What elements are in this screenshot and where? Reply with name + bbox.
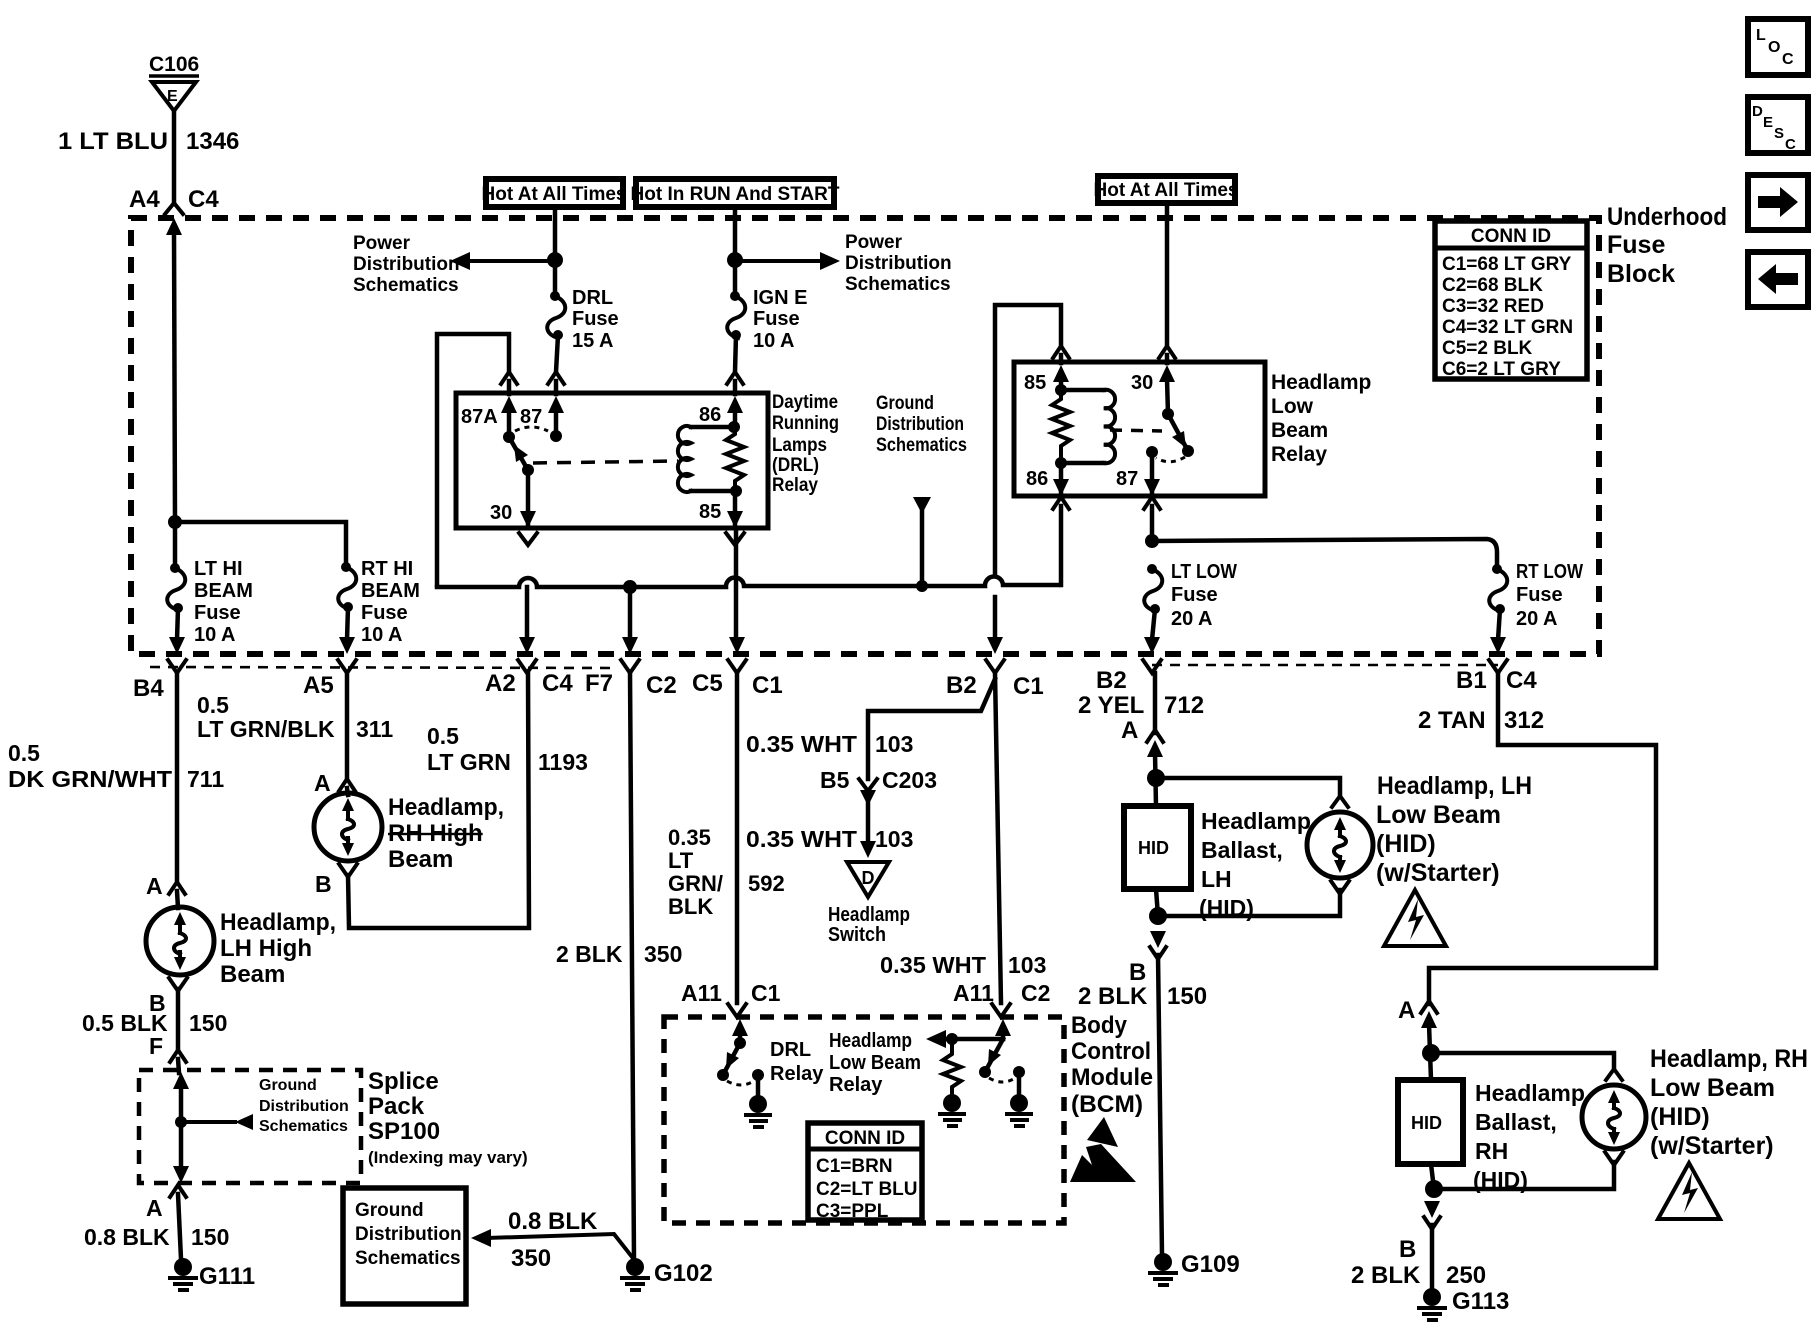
svg-text:A5: A5	[303, 672, 334, 699]
svg-text:Underhood: Underhood	[1607, 203, 1727, 231]
svg-text:Relay: Relay	[772, 475, 818, 496]
svg-text:30: 30	[490, 502, 512, 524]
svg-text:Headlamp: Headlamp	[1271, 371, 1371, 394]
svg-text:Fuse: Fuse	[753, 308, 800, 330]
svg-text:87A: 87A	[461, 406, 498, 428]
svg-text:311: 311	[356, 716, 393, 742]
svg-text:(w/Starter): (w/Starter)	[1376, 859, 1500, 887]
svg-text:C5: C5	[692, 670, 723, 697]
svg-text:Beam: Beam	[220, 961, 285, 988]
wire 2 YEL 712 (B2 to LH ballast)	[1078, 673, 1204, 806]
svg-text:LT HI: LT HI	[194, 558, 243, 580]
svg-text:C2=68 BLK: C2=68 BLK	[1442, 275, 1543, 296]
svg-text:0.5: 0.5	[427, 723, 459, 749]
svg-text:C3=32 RED: C3=32 RED	[1442, 296, 1544, 317]
svg-text:C6=2 LT GRY: C6=2 LT GRY	[1442, 359, 1561, 380]
svg-text:Beam: Beam	[388, 846, 453, 873]
svg-text:2 YEL: 2 YEL	[1078, 692, 1144, 719]
svg-text:150: 150	[189, 1010, 227, 1036]
svg-text:Low Beam: Low Beam	[1376, 801, 1501, 829]
svg-text:Schematics: Schematics	[845, 274, 951, 295]
headlamp RH Low Beam (HID) lamp	[1425, 1045, 1808, 1198]
warning triangle (LH)	[1384, 890, 1446, 946]
svg-text:C1=68 LT GRY: C1=68 LT GRY	[1442, 254, 1572, 275]
svg-text:0.35: 0.35	[668, 825, 711, 850]
fuse LT HI BEAM 10 A	[167, 522, 253, 646]
svg-text:Ground: Ground	[259, 1077, 317, 1094]
svg-text:2 BLK: 2 BLK	[556, 941, 623, 967]
headlamp switch (triangle D)	[828, 862, 910, 946]
svg-text:Relay: Relay	[1271, 443, 1327, 466]
ground distribution schematics (mid, triangle tap)	[876, 393, 967, 592]
wire 0.5 LT GRN 1193 (RH high beam B to A2)	[315, 673, 588, 928]
ground (BCM relay contact)	[1007, 1094, 1031, 1126]
svg-text:G102: G102	[654, 1260, 713, 1287]
svg-text:RT HI: RT HI	[361, 558, 413, 580]
power distribution schematics arrow (right)	[735, 232, 952, 295]
svg-text:Ballast,: Ballast,	[1201, 837, 1283, 863]
svg-text:BEAM: BEAM	[361, 580, 420, 602]
svg-text:592: 592	[748, 871, 785, 896]
svg-text:A11: A11	[681, 980, 722, 1006]
ground (BCM DRL relay contact)	[746, 1095, 770, 1127]
svg-text:350: 350	[644, 941, 682, 967]
svg-text:A11: A11	[953, 980, 994, 1006]
DRL relay coil (86-85) with resistor	[519, 396, 744, 545]
svg-text:150: 150	[1167, 983, 1207, 1010]
svg-text:O: O	[1768, 39, 1780, 56]
svg-text:Distribution: Distribution	[355, 1224, 462, 1245]
conn id table (underhood fuse block)	[1435, 221, 1587, 380]
svg-text:10 A: 10 A	[194, 624, 236, 646]
icon box LOC	[1748, 19, 1808, 75]
svg-text:C4: C4	[188, 186, 219, 213]
svg-text:Schematics: Schematics	[876, 435, 967, 456]
svg-text:Low Beam: Low Beam	[1650, 1074, 1775, 1102]
DRL relay (inside BCM)	[717, 1019, 824, 1097]
svg-text:30: 30	[1131, 372, 1153, 394]
wire 0.5 BLK 150 (LH high beam B to splice)	[82, 978, 227, 1073]
svg-text:87: 87	[520, 406, 542, 428]
headlamp RH High Beam	[314, 793, 504, 873]
svg-text:A: A	[146, 1195, 163, 1221]
svg-text:LH High: LH High	[220, 935, 312, 962]
connector row arrows through fuse block bottom	[169, 528, 1506, 654]
headlamp LH High Beam	[146, 907, 336, 988]
svg-text:10 A: 10 A	[753, 330, 795, 352]
svg-text:Hot In RUN And START: Hot In RUN And START	[631, 184, 840, 205]
svg-text:150: 150	[191, 1224, 229, 1250]
svg-text:20 A: 20 A	[1516, 608, 1558, 630]
svg-text:Ground: Ground	[876, 393, 934, 414]
headlamp LH Low Beam (HID) lamp	[1149, 772, 1532, 925]
svg-text:Low: Low	[1271, 395, 1314, 418]
power distribution schematics arrow (left)	[353, 233, 555, 296]
svg-text:350: 350	[511, 1245, 551, 1272]
svg-text:C4=32 LT GRN: C4=32 LT GRN	[1442, 317, 1573, 338]
ground (BCM relay coil)	[940, 1094, 964, 1126]
wire 0.35 LT GRN/BLK 592 (C5/C1 to BCM A11/C1)	[668, 673, 785, 1017]
svg-text:Distribution: Distribution	[876, 414, 964, 435]
svg-text:B: B	[1129, 959, 1146, 986]
svg-text:711: 711	[187, 766, 224, 792]
svg-text:Hot At All Times: Hot At All Times	[482, 184, 627, 205]
DRL relay terminal 87A	[461, 396, 517, 443]
wire feed to RT HI BEAM fuse	[168, 515, 346, 566]
svg-text:F: F	[149, 1033, 163, 1059]
svg-text:Schematics: Schematics	[353, 275, 459, 296]
svg-text:Distribution: Distribution	[845, 253, 952, 274]
headlamp ballast RH (HID)	[1398, 1080, 1585, 1193]
wire 2 BLK 150 (LH ballast B to G109)	[1078, 931, 1207, 1255]
wire 2 BLK 350 (F7 to G102)	[556, 673, 682, 1260]
warning triangle (RH)	[1658, 1163, 1720, 1219]
svg-text:BEAM: BEAM	[194, 580, 253, 602]
svg-text:Headlamp: Headlamp	[1201, 808, 1311, 834]
icon box arrow right	[1748, 175, 1808, 230]
svg-text:RH High: RH High	[388, 820, 483, 847]
conn id table (BCM)	[808, 1123, 922, 1222]
svg-text:Fuse: Fuse	[194, 602, 241, 624]
svg-text:HID: HID	[1411, 1113, 1442, 1133]
ground distribution schematics box (bottom)	[343, 1188, 636, 1304]
svg-text:DRL: DRL	[572, 287, 613, 309]
svg-text:A4: A4	[129, 186, 160, 213]
relay DRL (Daytime Running Lamps)	[456, 392, 839, 528]
svg-text:LT GRN: LT GRN	[427, 749, 511, 775]
svg-text:C203: C203	[882, 767, 937, 793]
svg-text:Fuse: Fuse	[572, 308, 619, 330]
fuse IGN E 10 A	[727, 287, 807, 394]
svg-text:D: D	[862, 868, 875, 888]
svg-text:C3=PPL: C3=PPL	[816, 1201, 889, 1222]
svg-text:Splice: Splice	[368, 1068, 439, 1095]
svg-text:20 A: 20 A	[1171, 608, 1213, 630]
svg-text:Power: Power	[845, 232, 903, 253]
wire 87A loop (DRL relay 87A to ground bus)	[437, 334, 517, 585]
svg-text:C5=2 BLK: C5=2 BLK	[1442, 338, 1533, 359]
svg-text:SP100: SP100	[368, 1118, 440, 1145]
svg-text:C2: C2	[646, 672, 677, 699]
fuse RT LOW 20 A	[1489, 561, 1583, 640]
svg-text:Relay: Relay	[770, 1063, 824, 1085]
ground G102	[622, 1258, 713, 1290]
svg-text:G109: G109	[1181, 1251, 1240, 1278]
ground G113	[1419, 1288, 1509, 1320]
fuse RT HI BEAM 10 A	[338, 558, 420, 646]
svg-text:A: A	[1398, 997, 1415, 1024]
wire 2 TAN 312 (B1/C4 to RH ballast)	[1398, 673, 1656, 1080]
wire 85 loop (low beam relay 85 to B2/C1)	[995, 305, 1069, 640]
svg-text:D: D	[1752, 103, 1763, 120]
svg-text:85: 85	[1024, 372, 1046, 394]
svg-text:Fuse: Fuse	[1607, 231, 1665, 259]
svg-text:15 A: 15 A	[572, 330, 614, 352]
svg-text:Headlamp, LH: Headlamp, LH	[1377, 772, 1532, 800]
body control module BCM (dashed box)	[664, 1012, 1153, 1223]
svg-text:(HID): (HID)	[1376, 830, 1436, 858]
svg-text:Switch: Switch	[828, 924, 886, 946]
svg-text:2 TAN: 2 TAN	[1418, 707, 1486, 734]
svg-text:(w/Starter): (w/Starter)	[1650, 1132, 1774, 1160]
svg-text:RT LOW: RT LOW	[1516, 561, 1583, 583]
wire from Hot At All Times to DRL fuse	[547, 207, 563, 295]
ESD sensitive symbol	[1070, 1117, 1136, 1182]
wire branch to headlamp switch (0.35 WHT 103)	[746, 679, 995, 779]
svg-text:C2: C2	[1021, 980, 1050, 1006]
svg-text:B4: B4	[133, 675, 164, 702]
svg-text:10 A: 10 A	[361, 624, 403, 646]
ground G111	[170, 1258, 255, 1290]
svg-text:86: 86	[1026, 468, 1048, 490]
wire 0.35 WHT 103 (B2/C1 to BCM A11/C2)	[880, 673, 1050, 1017]
svg-text:103: 103	[1008, 952, 1046, 978]
svg-text:BLK: BLK	[668, 894, 713, 919]
svg-text:Running: Running	[772, 413, 839, 434]
svg-text:Ground: Ground	[355, 1200, 424, 1221]
svg-text:B5: B5	[820, 767, 850, 793]
fuse LT LOW 20 A	[1144, 561, 1237, 640]
wire 0.5 DK GRN/WHT 711 (B4 to LH high beam A)	[8, 673, 224, 908]
svg-text:(Indexing may vary): (Indexing may vary)	[368, 1148, 528, 1167]
svg-text:CONN ID: CONN ID	[1471, 226, 1551, 247]
wire 0.8 BLK 150 (splice to G111)	[84, 1185, 229, 1259]
svg-text:C1=BRN: C1=BRN	[816, 1156, 893, 1177]
svg-text:Headlamp: Headlamp	[829, 1030, 912, 1052]
svg-text:Block: Block	[1607, 260, 1675, 288]
svg-text:L: L	[1756, 27, 1766, 44]
ground G109	[1150, 1251, 1240, 1285]
svg-text:Module: Module	[1071, 1064, 1153, 1091]
svg-text:86: 86	[699, 404, 721, 426]
svg-text:Distribution: Distribution	[353, 254, 460, 275]
svg-text:A: A	[146, 873, 163, 899]
svg-text:0.5: 0.5	[197, 692, 229, 718]
low beam relay switch (30-87)	[1116, 365, 1194, 496]
svg-text:2 BLK: 2 BLK	[1351, 1262, 1421, 1289]
svg-text:Power: Power	[353, 233, 411, 254]
svg-text:B2: B2	[946, 672, 977, 699]
wire low beam relay 86 to ground bus	[1053, 497, 1069, 585]
svg-text:Ballast,: Ballast,	[1475, 1109, 1557, 1135]
svg-text:DK GRN/WHT: DK GRN/WHT	[8, 766, 172, 792]
wire from Hot In RUN And START to IGN E fuse	[727, 207, 743, 295]
headlamp ballast LH (HID)	[1124, 806, 1311, 921]
svg-text:103: 103	[875, 731, 913, 757]
svg-text:250: 250	[1446, 1262, 1486, 1289]
svg-text:2 BLK: 2 BLK	[1078, 983, 1148, 1010]
svg-text:GRN/: GRN/	[668, 871, 723, 896]
svg-text:Schematics: Schematics	[355, 1248, 461, 1269]
label Hot In RUN And START	[631, 179, 840, 207]
svg-text:103: 103	[875, 826, 913, 852]
svg-text:HID: HID	[1138, 838, 1169, 858]
svg-text:C: C	[1782, 51, 1794, 68]
svg-text:E: E	[1763, 114, 1773, 131]
headlamp low beam relay (inside BCM)	[829, 1019, 1025, 1096]
svg-text:RH: RH	[1475, 1138, 1508, 1164]
wire low beam relay 87 to fuses	[1144, 497, 1497, 568]
wire 1 LT BLU 1346 (C106 to fuse block A4/C4)	[58, 110, 239, 522]
svg-text:Hot At All Times: Hot At All Times	[1094, 180, 1239, 201]
svg-text:Daytime: Daytime	[772, 392, 838, 413]
svg-text:Body: Body	[1071, 1012, 1128, 1039]
svg-text:B: B	[315, 871, 332, 897]
svg-text:C2=LT BLU: C2=LT BLU	[816, 1179, 918, 1200]
DRL relay terminal 87	[515, 396, 564, 442]
relay Headlamp Low Beam	[1014, 362, 1371, 496]
icon box arrow left	[1748, 252, 1808, 307]
svg-text:0.35 WHT: 0.35 WHT	[746, 731, 857, 757]
splice pack SP100 (dashed box)	[139, 1068, 528, 1183]
svg-text:A: A	[314, 770, 331, 796]
svg-text:1193: 1193	[538, 749, 588, 775]
svg-text:LT LOW: LT LOW	[1171, 561, 1237, 583]
wire 0.5 LT GRN/BLK 311 (A5 to RH high beam A)	[197, 673, 393, 796]
svg-text:0.35 WHT: 0.35 WHT	[746, 826, 857, 852]
svg-text:B2: B2	[1096, 667, 1127, 694]
svg-text:Headlamp, RH: Headlamp, RH	[1650, 1045, 1808, 1073]
svg-text:Low Beam: Low Beam	[829, 1052, 921, 1074]
inline connector B5 / C203	[820, 767, 937, 806]
DRL relay switch arm and terminal 30	[490, 437, 536, 528]
svg-text:Lamps: Lamps	[772, 435, 827, 456]
svg-text:85: 85	[699, 501, 721, 523]
svg-text:(DRL): (DRL)	[772, 455, 819, 476]
svg-text:Headlamp: Headlamp	[828, 904, 910, 926]
svg-text:C: C	[1785, 136, 1796, 153]
label Hot At All Times (left)	[482, 179, 627, 207]
svg-text:C1: C1	[752, 672, 783, 699]
svg-text:Headlamp,: Headlamp,	[220, 909, 336, 936]
svg-text:Schematics: Schematics	[259, 1118, 348, 1135]
svg-text:G113: G113	[1452, 1288, 1509, 1315]
svg-text:Fuse: Fuse	[361, 602, 408, 624]
wire 2 BLK 250 (RH ballast B to G113)	[1351, 1201, 1486, 1289]
svg-text:(HID): (HID)	[1650, 1103, 1710, 1131]
svg-text:C106: C106	[149, 53, 199, 76]
svg-text:C4: C4	[542, 670, 573, 697]
svg-text:Fuse: Fuse	[1171, 584, 1218, 606]
svg-text:Control: Control	[1071, 1038, 1151, 1065]
svg-text:LT GRN/BLK: LT GRN/BLK	[197, 716, 335, 742]
connector C106 (triangle E)	[149, 53, 199, 111]
svg-text:B: B	[1399, 1236, 1416, 1263]
svg-text:Pack: Pack	[368, 1093, 425, 1120]
svg-text:A: A	[1121, 717, 1138, 744]
svg-text:Distribution: Distribution	[259, 1098, 349, 1115]
svg-text:1346: 1346	[186, 128, 239, 155]
svg-text:0.35 WHT: 0.35 WHT	[880, 952, 986, 978]
svg-text:B1: B1	[1456, 667, 1487, 694]
connector chevrons below fuse block	[150, 660, 1507, 673]
svg-text:IGN E: IGN E	[753, 287, 807, 309]
underhood fuse block (dashed boundary)	[131, 203, 1727, 654]
wire from Hot At All Times (right) to low beam relay 30	[1159, 203, 1175, 363]
svg-text:C1: C1	[1013, 673, 1044, 700]
svg-text:Headlamp,: Headlamp,	[388, 794, 504, 821]
svg-text:Relay: Relay	[829, 1074, 883, 1096]
svg-text:E: E	[167, 88, 178, 105]
svg-text:Fuse: Fuse	[1516, 584, 1563, 606]
svg-text:A2: A2	[485, 670, 516, 697]
svg-text:(BCM): (BCM)	[1071, 1091, 1143, 1118]
ground bus wire inside fuse block	[437, 577, 1058, 594]
fuse DRL 15 A	[547, 287, 618, 394]
svg-text:F7: F7	[585, 670, 613, 697]
icon box DESC	[1748, 97, 1808, 153]
svg-text:0.8 BLK: 0.8 BLK	[508, 1208, 598, 1235]
svg-text:Headlamp: Headlamp	[1475, 1080, 1585, 1106]
svg-text:1 LT BLU: 1 LT BLU	[58, 128, 168, 155]
low beam relay coil (85-86) with resistor	[1024, 365, 1162, 496]
svg-text:LH: LH	[1201, 866, 1232, 892]
svg-text:712: 712	[1164, 692, 1204, 719]
svg-text:LT: LT	[668, 848, 694, 873]
svg-text:Beam: Beam	[1271, 419, 1328, 442]
svg-text:0.8 BLK: 0.8 BLK	[84, 1224, 170, 1250]
svg-text:CONN ID: CONN ID	[825, 1128, 905, 1149]
connector pin labels row	[133, 667, 1537, 702]
svg-text:DRL: DRL	[770, 1039, 811, 1061]
label Hot At All Times (right)	[1094, 176, 1239, 203]
svg-text:C1: C1	[751, 980, 781, 1006]
svg-text:G111: G111	[199, 1263, 255, 1290]
svg-text:S: S	[1774, 125, 1784, 142]
svg-text:312: 312	[1504, 707, 1544, 734]
svg-text:87: 87	[1116, 468, 1138, 490]
svg-text:C4: C4	[1506, 667, 1537, 694]
svg-text:0.5: 0.5	[8, 740, 40, 766]
wire 0.35 WHT 103 (C203 to headlamp switch)	[746, 800, 913, 858]
